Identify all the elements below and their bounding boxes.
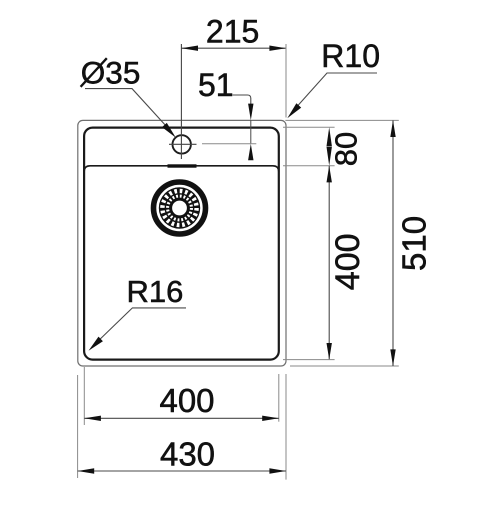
svg-text:51: 51 [198, 67, 234, 103]
svg-text:215: 215 [206, 13, 259, 49]
svg-text:R10: R10 [321, 38, 380, 74]
svg-text:R16: R16 [127, 274, 184, 309]
svg-text:400: 400 [159, 382, 214, 419]
svg-text:510: 510 [395, 216, 432, 271]
svg-text:O35: O35 [81, 54, 141, 90]
svg-text:80: 80 [328, 132, 363, 166]
svg-text:430: 430 [160, 435, 215, 472]
svg-text:400: 400 [329, 233, 367, 290]
